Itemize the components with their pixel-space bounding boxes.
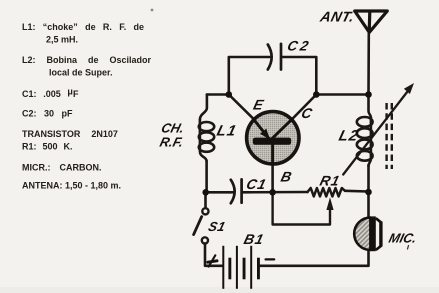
battery B1 plate long 3 bbox=[250, 246, 252, 289]
svg-text:local de Super.: local de Super. bbox=[49, 68, 113, 78]
svg-text:L2: Bobina de Oscilador: L2: Bobina de Oscilador bbox=[22, 55, 152, 65]
L2 dashed core line 2 bbox=[391, 103, 393, 169]
transistor base inner line bbox=[271, 145, 274, 166]
svg-text:ANT.: ANT. bbox=[318, 10, 357, 26]
svg-text:C2: C2 bbox=[286, 37, 313, 53]
antenna symbol bbox=[355, 11, 388, 32]
wire L1 branch upper bbox=[200, 95, 207, 120]
battery B1 plate short 3 bbox=[257, 258, 260, 280]
battery minus mark bbox=[266, 258, 275, 260]
node A top-left junction bbox=[226, 91, 233, 98]
wire bottom rail R1 to right node bbox=[345, 190, 369, 193]
wire bottom rail left of C1 bbox=[207, 191, 234, 194]
capacitor C2 bbox=[268, 44, 281, 70]
wire L2 branch lower bbox=[367, 165, 370, 192]
switch S1 terminal top bbox=[202, 208, 208, 214]
node C antenna junction bbox=[365, 91, 372, 98]
inductor L2 loop 4 bbox=[357, 151, 373, 161]
wire emitter lead bbox=[229, 95, 253, 119]
wire mic top lead bbox=[367, 192, 370, 217]
inductor L1 loop 3 bbox=[199, 143, 214, 152]
svg-text:ANTENA: 1,50 - 1,80 m.: ANTENA: 1,50 - 1,80 m. bbox=[22, 181, 121, 191]
R1 wiper arrowhead bbox=[326, 197, 333, 210]
transistor collector inner line bbox=[272, 118, 293, 139]
battery B1 plate long 2 bbox=[236, 246, 238, 289]
svg-text:R1: 500 K.: R1: 500 K. bbox=[22, 141, 73, 151]
L2 dashed core line 1 bbox=[385, 103, 387, 169]
svg-text:C1: C1 bbox=[245, 177, 269, 193]
wire top rail left + left vertical bbox=[229, 57, 270, 95]
stray comma mark under MIC label bbox=[408, 246, 409, 250]
svg-text:L1: “choke” de R. F. de: L1: “choke” de R. F. de bbox=[22, 22, 144, 32]
svg-text:2,5 mH.: 2,5 mH. bbox=[46, 34, 78, 44]
wire S1 to node bbox=[204, 192, 207, 207]
resistor R1 bbox=[308, 188, 346, 196]
wire mid rail left bbox=[207, 93, 229, 96]
wire bottom rail C1 to R1 bbox=[243, 191, 308, 194]
wire S1 bottom stub + battery + lead bbox=[205, 244, 222, 266]
transistor emitter arrowhead bbox=[260, 129, 270, 140]
svg-text:L1: L1 bbox=[215, 123, 239, 140]
node B top-right junction bbox=[313, 91, 320, 98]
microphone bracket bbox=[376, 218, 381, 250]
wire battery - lead to mic bbox=[260, 252, 369, 266]
wire L1 branch lower bbox=[205, 161, 208, 192]
inductor L2 loop 2 bbox=[357, 128, 373, 138]
svg-text:B1: B1 bbox=[242, 232, 266, 248]
svg-text:CH.: CH. bbox=[160, 121, 186, 136]
wire antenna feed bbox=[367, 33, 370, 95]
wire base lead bbox=[271, 164, 274, 192]
node E base junction bbox=[269, 189, 276, 196]
wire mid rail right bbox=[316, 93, 368, 96]
wire top rail right + right vertical bbox=[282, 57, 317, 95]
microphone MIC diaphragm bbox=[354, 218, 370, 250]
inductor L1 spine bbox=[200, 120, 207, 162]
battery B1 plate short 2 bbox=[243, 258, 246, 280]
inductor L1 loop 1 bbox=[199, 122, 214, 131]
svg-text:C2: 30 pF: C2: 30 pF bbox=[22, 108, 73, 118]
wire wiper connection bbox=[273, 192, 330, 224]
battery plus mark bbox=[208, 255, 217, 266]
inductor L2 loop 3 bbox=[357, 140, 373, 150]
switch S1 lever bbox=[194, 217, 202, 235]
inductor L1 loop 2 bbox=[199, 132, 214, 141]
node F bottom-right junction bbox=[365, 189, 372, 196]
svg-text:MIC.: MIC. bbox=[387, 231, 418, 246]
wire L2 branch upper bbox=[369, 95, 371, 118]
svg-text:L2: L2 bbox=[337, 128, 361, 145]
wire collector lead bbox=[293, 95, 317, 119]
battery B1 plate long 1 bbox=[222, 246, 224, 289]
microphone electrode bar bbox=[371, 216, 376, 251]
stray ink speck bbox=[151, 9, 154, 12]
battery B1 plate short 1 bbox=[228, 258, 231, 280]
transistor emitter inner line bbox=[253, 118, 269, 139]
capacitor C1 bbox=[231, 179, 242, 203]
inductor L2 loop 1 bbox=[357, 117, 373, 127]
transistor Q1 circle bbox=[247, 112, 299, 164]
svg-text:TRANSISTOR 2N107: TRANSISTOR 2N107 bbox=[22, 129, 118, 139]
svg-text:R.F.: R.F. bbox=[158, 135, 185, 150]
transistor base bar bbox=[253, 138, 291, 145]
node D bottom-left junction bbox=[202, 189, 209, 196]
L2 variable arrow bbox=[343, 92, 407, 175]
svg-text:R1: R1 bbox=[318, 173, 342, 189]
svg-text:MICR.: CARBON.: MICR.: CARBON. bbox=[22, 162, 102, 172]
switch S1 terminal bottom bbox=[202, 237, 208, 243]
inductor L2 spine bbox=[369, 118, 371, 167]
